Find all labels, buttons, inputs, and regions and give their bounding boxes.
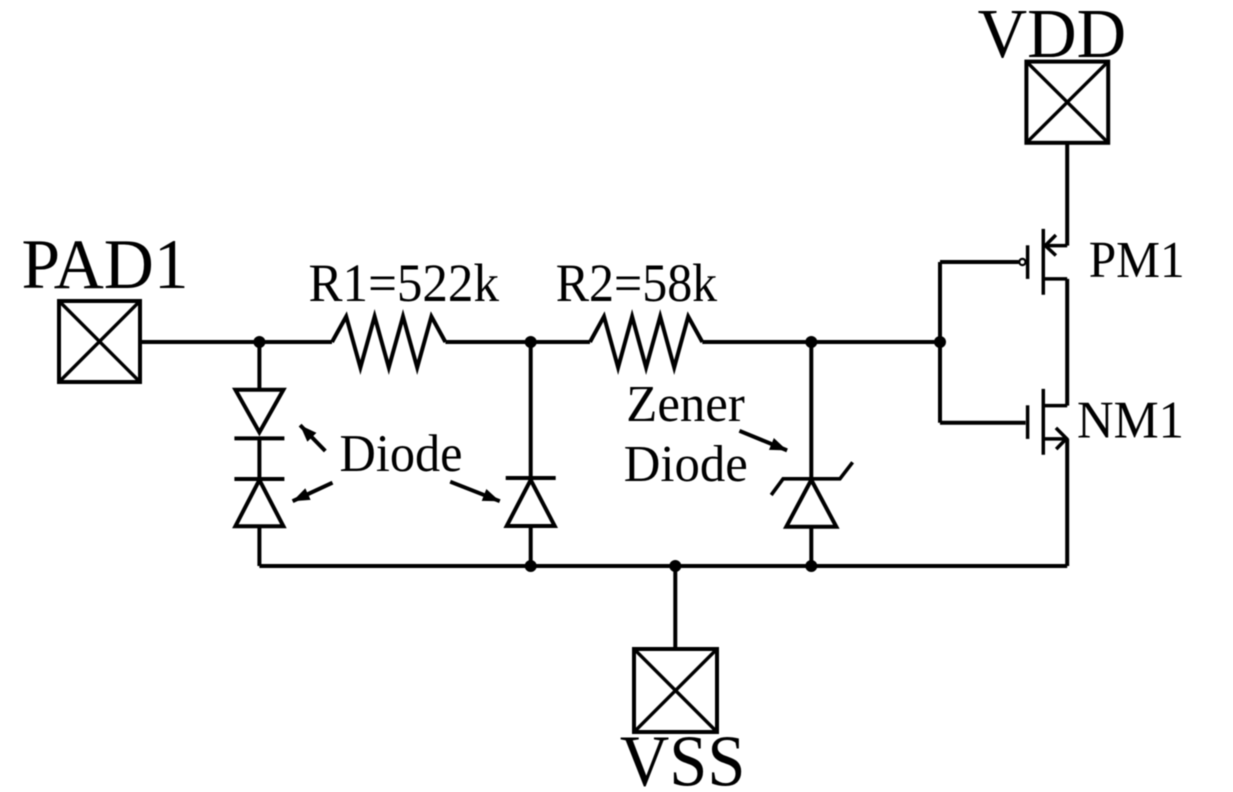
transistor PM1 [1019, 229, 1067, 295]
diode D2 [234, 479, 284, 526]
svg-text:VDD: VDD [978, 0, 1127, 73]
diode D1 [234, 390, 284, 439]
svg-text:Diode: Diode [340, 425, 463, 483]
wire node B down to diode D3 [529, 342, 533, 478]
svg-text:R1=522k: R1=522k [309, 253, 500, 313]
wire PM1 source to NM1 drain [1065, 279, 1069, 406]
zener diode Z1 [771, 462, 852, 526]
svg-text:R2=58k: R2=58k [556, 253, 718, 313]
node B junction dot [525, 336, 537, 348]
arrow Diode to D1 [300, 425, 325, 451]
wire D3 to bottom rail [529, 526, 533, 566]
svg-text:PM1: PM1 [1089, 232, 1185, 289]
resistor R1 [332, 317, 445, 368]
svg-text:Zener: Zener [626, 376, 745, 433]
node A junction dot [253, 336, 265, 348]
arrow Zener Diode to Z1 [739, 431, 787, 451]
transistor NM1 [1028, 389, 1068, 455]
junction dot Z1 rail [805, 560, 817, 572]
arrow Diode to D2 [293, 483, 333, 502]
wire node A down to diode D1 [257, 342, 261, 390]
wire Z1 to bottom rail [809, 527, 813, 566]
junction dot D3 rail [525, 560, 537, 572]
wire gate to NM1 [940, 421, 1026, 425]
wire gate to PM1 bubble [940, 260, 1019, 264]
pad VDD [1026, 62, 1108, 143]
svg-text:VSS: VSS [620, 720, 746, 792]
node C junction dot [805, 336, 817, 348]
junction dot VSS rail [669, 560, 681, 572]
gate node vertical wire [938, 262, 942, 423]
pad PAD1 [59, 301, 140, 382]
wire rail to VSS pad [673, 566, 677, 649]
svg-text:NM1: NM1 [1077, 392, 1184, 450]
svg-text:Diode: Diode [624, 436, 748, 493]
wire R2 to gate node [702, 340, 940, 344]
pad VSS [634, 649, 717, 732]
gate node junction dot [934, 336, 946, 348]
arrow Diode to D3 [450, 482, 500, 502]
wire D2 to bottom rail [257, 526, 261, 566]
wire R1 to node B [445, 340, 590, 344]
wire node C down to zener Z1 [809, 342, 813, 479]
wire PAD1 to node A [140, 340, 332, 344]
resistor R2 [590, 317, 702, 368]
wire between D1 and D2 [257, 438, 261, 479]
diode D3 [506, 478, 556, 526]
wire NM1 source to bottom rail [1065, 439, 1069, 566]
bottom rail wire [259, 564, 1067, 568]
wire VDD to PM1 drain [1065, 143, 1069, 246]
svg-text:PAD1: PAD1 [22, 226, 189, 304]
